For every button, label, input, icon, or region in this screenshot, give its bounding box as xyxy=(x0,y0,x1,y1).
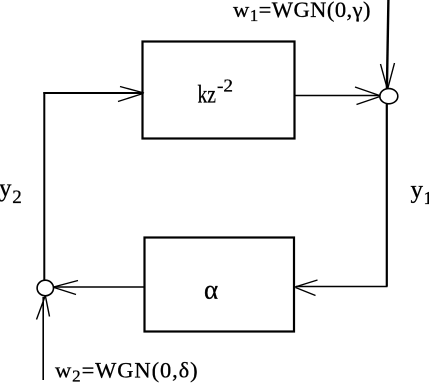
wire kz output to right node xyxy=(295,95,381,97)
wire w1 vertical from top xyxy=(387,0,389,89)
arrowhead into left node from right xyxy=(54,281,79,295)
wire horizontal into alpha box xyxy=(296,286,388,288)
wire alpha output to left node xyxy=(54,286,145,288)
wire w2 vertical from bottom xyxy=(42,297,44,380)
svg-text:kz: kz xyxy=(198,82,217,109)
arrowhead into alpha box xyxy=(295,280,318,296)
svg-text:y1: y1 xyxy=(411,177,429,209)
wire y1 vertical down from right node xyxy=(386,104,388,287)
wire left vertical y2 xyxy=(43,92,45,281)
arrowhead into kz box xyxy=(118,87,144,102)
svg-text:α: α xyxy=(204,275,218,305)
block kz^-2 xyxy=(143,42,295,139)
svg-text:w1=WGN(0,γ): w1=WGN(0,γ) xyxy=(233,0,371,25)
summing node left xyxy=(37,280,53,296)
block alpha xyxy=(145,238,295,332)
arrowhead w2 into left node xyxy=(37,297,50,320)
summing node right xyxy=(380,89,398,104)
arrowhead into right node from left xyxy=(355,87,381,105)
wire top-left horizontal into kz box xyxy=(43,92,142,94)
svg-text:-2: -2 xyxy=(217,76,233,96)
svg-text:w2=WGN(0,δ): w2=WGN(0,δ) xyxy=(55,358,199,386)
arrowhead w1 into right node xyxy=(381,63,395,90)
svg-text:y2: y2 xyxy=(0,175,22,208)
